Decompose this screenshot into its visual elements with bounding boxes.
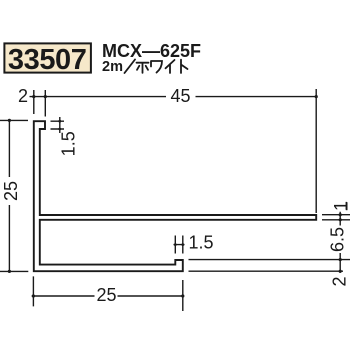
svg-text:1.5: 1.5	[59, 131, 79, 156]
svg-text:45: 45	[170, 86, 190, 106]
svg-text:2: 2	[330, 276, 350, 286]
svg-text:2m: 2m	[102, 59, 123, 75]
svg-text:1.5: 1.5	[189, 233, 214, 253]
svg-text:MCX—625F: MCX—625F	[102, 41, 201, 61]
svg-text:25: 25	[1, 181, 21, 201]
svg-text:2: 2	[18, 86, 28, 106]
svg-text:25: 25	[96, 285, 116, 305]
svg-text:33507: 33507	[8, 44, 87, 76]
svg-text:6.5: 6.5	[328, 227, 348, 252]
